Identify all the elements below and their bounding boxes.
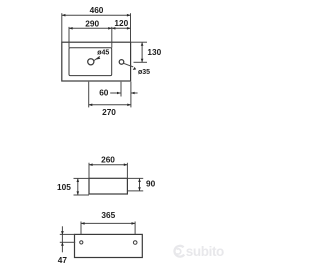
svg-text:60: 60 [99,87,109,97]
svg-text:260: 260 [101,155,115,165]
arrow 290 left [69,27,73,30]
leader line o35 [124,63,134,67]
47 top extension [60,233,75,235]
105 bottom extension [74,194,90,196]
sink rear outline [75,234,143,257]
260 extension right [126,163,128,179]
260 extension left [88,163,90,179]
mounting hole right [133,241,137,245]
extension line 290/120 middle [111,27,113,48]
arrow 365 left [81,222,85,225]
130 bottom extension [134,61,148,63]
365 extension left [80,222,82,235]
svg-text:47: 47 [58,255,68,265]
sink outer outline (plan) [62,42,131,81]
svg-text:130: 130 [147,47,161,57]
60 dim left segment [110,92,120,94]
arrow 460 right [127,14,131,17]
arrow 60 right [131,92,135,95]
60 extension faucet centre [120,82,122,97]
svg-text:270: 270 [102,107,116,117]
arrow 105 top [77,178,80,182]
arrow 47 up (outside below) [61,242,64,246]
basin inner outline (plan) [69,48,112,76]
arrow 60 left [117,92,121,95]
270 dimension line [89,104,131,106]
arrow 260 right [124,163,128,166]
365 dimension line [81,222,135,224]
arrow 120 left [112,27,116,30]
arrow 290 right [108,27,112,30]
dimension line 460 [62,14,131,16]
arrow o45 leader [96,57,101,60]
arrow 130 bottom [141,59,144,63]
105 dimension line [77,178,79,195]
arrow 90 bottom [138,187,141,191]
60 dim right segment [131,92,138,94]
105 top extension [74,177,90,179]
arrow 260 left [89,163,93,166]
svg-text:120: 120 [114,18,128,28]
arrow 270 right [127,104,131,107]
90 top extension [127,177,143,179]
arrow 460 left [62,14,66,17]
svg-text:ø45: ø45 [97,50,109,57]
leader line o45 [94,56,100,60]
47 dimension line [61,226,63,252]
watermark logo swirl [175,246,185,257]
270/60 extension right edge [130,82,132,108]
svg-text:460: 460 [90,5,104,15]
arrow 270 left [89,104,93,107]
90 bottom extension [127,190,143,192]
svg-text:ø35: ø35 [138,69,150,76]
130 dimension line [141,42,143,62]
svg-text:105: 105 [57,182,71,192]
arrow 90 top [138,178,141,182]
extension line right of 460/120 [130,13,132,42]
270 extension drain centre [88,82,90,108]
svg-text:290: 290 [85,19,99,29]
mounting hole left [80,241,83,244]
faucet hole circle o35 [119,60,124,65]
arrow 130 top [141,42,144,46]
drain hole circle o45 [88,59,94,65]
sink side outline [89,178,127,194]
arrow 120 right [127,27,131,30]
arrow o35 leader [133,67,136,70]
dimension line 290+120 [69,27,131,29]
260 dimension line [89,164,127,166]
arrow 105 bottom [77,191,80,195]
svg-text:90: 90 [146,179,156,189]
svg-text:subito: subito [186,244,224,259]
extension line 290 left [68,27,70,48]
extension line left of 460 [61,13,63,42]
47 bottom extension [60,241,75,243]
svg-text:365: 365 [101,210,115,220]
arrow 365 right [132,222,136,225]
arrow 47 down (outside above) [61,231,64,235]
90 dimension line [139,178,141,191]
130 top extension [131,41,147,43]
365 extension right [134,222,136,235]
